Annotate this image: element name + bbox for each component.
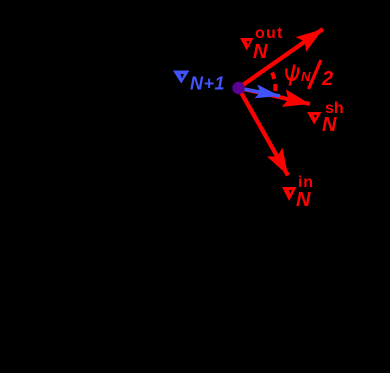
svg-text:N: N (253, 41, 268, 63)
svg-text:N: N (296, 189, 311, 211)
svg-text:N+1: N+1 (190, 74, 225, 94)
svg-text:2: 2 (321, 68, 333, 90)
svg-text:out: out (255, 25, 283, 42)
svg-text:N: N (322, 114, 337, 136)
svg-text:N: N (301, 69, 311, 84)
